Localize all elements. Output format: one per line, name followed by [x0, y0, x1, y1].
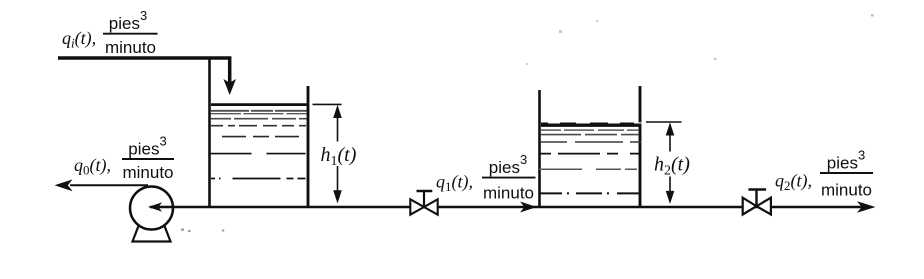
svg-text:q1(t),: q1(t), [436, 172, 473, 195]
svg-text:minuto: minuto [105, 38, 156, 57]
svg-text:h1(t): h1(t) [321, 144, 357, 169]
svg-text:qi(t),: qi(t), [62, 28, 96, 51]
svg-text:minuto: minuto [483, 184, 534, 203]
svg-text:q0(t),: q0(t), [74, 155, 111, 178]
svg-text:h2(t): h2(t) [654, 154, 690, 179]
svg-text:minuto: minuto [122, 163, 173, 182]
svg-text:q2(t),: q2(t), [775, 171, 812, 194]
svg-text:minuto: minuto [821, 181, 872, 200]
